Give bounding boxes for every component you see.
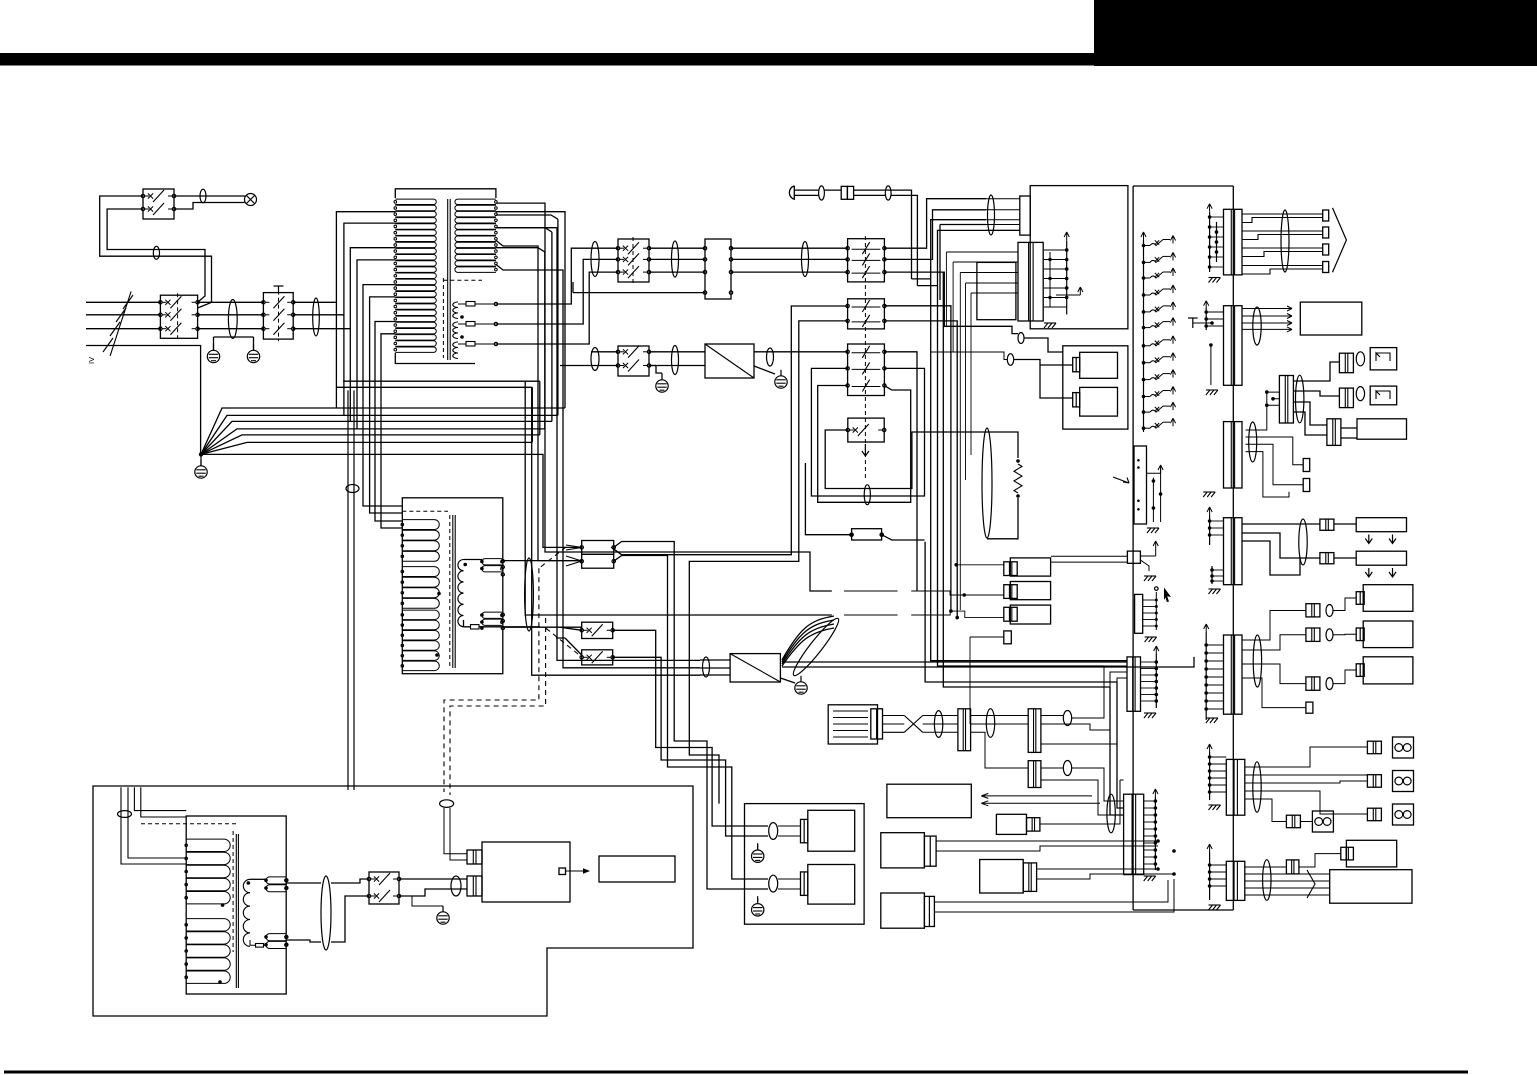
- riser 1: [496, 248, 618, 304]
- wire to switch 2: [107, 209, 205, 302]
- fan earth: [195, 466, 207, 478]
- S6 cable: [1253, 635, 1261, 687]
- T1 bottom bracket: [395, 353, 475, 364]
- wire seg: [731, 247, 848, 249]
- switch 3p slide: [848, 239, 885, 282]
- S5 ar 2: [1365, 568, 1372, 577]
- S8 chevron: [1307, 870, 1315, 898]
- S2 arrows: [1242, 308, 1286, 310]
- M2 gnd: [1144, 876, 1148, 881]
- app gnd 1: [752, 850, 764, 862]
- module 3: [1363, 657, 1413, 684]
- cable marker: [1007, 354, 1013, 366]
- bundle v1: [496, 203, 832, 591]
- T3 dashed: [141, 823, 238, 825]
- outlet box: [1300, 302, 1362, 335]
- S7 conn 1: [1367, 741, 1381, 754]
- T3 frame: [186, 816, 286, 994]
- M2 cable: [1107, 794, 1115, 833]
- bridge out: [754, 351, 848, 353]
- PS chassis gnd: [1044, 323, 1048, 328]
- S8 wires: [1245, 854, 1341, 895]
- PS pin bus: [1066, 240, 1068, 314]
- tall frame: [1133, 186, 1233, 910]
- S7 conn 2: [1367, 775, 1381, 788]
- S7 bus: [1209, 752, 1211, 800]
- T1 sec dots: [460, 315, 464, 319]
- CN108: [1226, 861, 1245, 900]
- S5 bus2: [1211, 566, 1213, 584]
- nest rect 2: [689, 321, 847, 804]
- T3 coils a: [186, 839, 230, 851]
- wire seg: [198, 301, 264, 303]
- fuse FX: [852, 529, 882, 540]
- cable marker: [767, 348, 774, 366]
- wire seg: [198, 328, 264, 330]
- S1 harness: [1242, 213, 1323, 215]
- comb2 gnd: [1145, 637, 1149, 642]
- earth 3: [656, 380, 668, 392]
- selector switch column: [1142, 244, 1146, 248]
- T2 primary coils b: [402, 567, 439, 577]
- cable marker: [802, 242, 809, 277]
- cable marker: [1018, 333, 1024, 344]
- riser F: [884, 306, 951, 611]
- T2 frame: [402, 498, 503, 674]
- modA wires: [936, 841, 1158, 851]
- switch 3p slide2: [848, 344, 885, 396]
- footer rule: [4, 1071, 1468, 1074]
- cable marker: [988, 195, 995, 235]
- T3 core: [232, 831, 234, 952]
- M1 pins: [1141, 661, 1157, 663]
- spk 4: [1312, 811, 1333, 832]
- sw col bus: [1143, 240, 1145, 432]
- disp arrows: [981, 793, 1100, 805]
- switch 2p: [618, 346, 649, 376]
- S5 ar 1: [1365, 535, 1372, 544]
- S2 gnd stem: [1210, 345, 1212, 385]
- bundle v5: [532, 387, 700, 675]
- S6 ell 3: [1326, 678, 1333, 690]
- S2 bus: [1205, 308, 1207, 330]
- dashed ctrl 1: [444, 547, 566, 792]
- S5 conn 1: [1320, 519, 1334, 530]
- wire seg: [293, 328, 350, 330]
- res wires: [982, 432, 1018, 539]
- fan out wires: [782, 657, 1194, 667]
- cable marker: [672, 346, 679, 375]
- BL switch: [369, 872, 399, 904]
- sm wires: [1040, 780, 1124, 824]
- small mod: [996, 814, 1026, 834]
- terminal block: [705, 239, 731, 299]
- mod A: [881, 833, 925, 868]
- BL wires mid: [286, 879, 369, 942]
- tb wire: [573, 282, 705, 293]
- dash v: [864, 236, 866, 480]
- BL cable 3: [451, 876, 461, 896]
- vbus 3: [925, 272, 1124, 815]
- S8 bus: [1209, 852, 1211, 900]
- br2 gnd: [795, 682, 807, 694]
- app ell 2: [769, 875, 778, 892]
- AC line 3: [86, 328, 160, 330]
- BL cable 4: [440, 800, 454, 808]
- wire to switch 1: [100, 196, 212, 308]
- module box 2: [1010, 582, 1050, 600]
- wrap loop 1: [336, 212, 565, 408]
- PS pin wires: [1049, 252, 1051, 307]
- T2 out loops 2: [482, 612, 502, 618]
- connector CN-T2: [582, 541, 614, 555]
- PS block: [1030, 186, 1128, 329]
- app gnd wires: [757, 843, 759, 902]
- riser 3: [496, 272, 618, 344]
- main switch: [160, 295, 197, 338]
- S5 cable: [1299, 519, 1307, 565]
- sw wires: [556, 627, 582, 655]
- app gnd 2: [752, 904, 764, 916]
- S5 bus: [1209, 515, 1211, 545]
- comb1 wires: [1147, 473, 1161, 522]
- S3 dots: [1265, 390, 1269, 394]
- fuse F1: [466, 302, 475, 307]
- edge box wires: [1051, 549, 1156, 571]
- f wires2: [971, 716, 1029, 769]
- edge box: [1127, 551, 1140, 563]
- relay box: [848, 418, 884, 442]
- switch 2p slide: [848, 299, 885, 329]
- relay loop: [825, 430, 982, 489]
- plug conn: [841, 186, 847, 199]
- cable marker: [672, 241, 679, 277]
- T2 core: [449, 515, 451, 668]
- f wires3: [1041, 666, 1127, 744]
- T1 primary left coils: [395, 199, 436, 204]
- riser ext: [946, 252, 960, 610]
- br2 cable: [703, 657, 710, 677]
- S1 bus: [1209, 212, 1211, 272]
- fan rect 1: [1356, 518, 1406, 532]
- S6 ell 1: [1326, 605, 1333, 617]
- jack 1: [1370, 348, 1397, 370]
- module box 3: [1010, 605, 1050, 624]
- svg-text:IV: IV: [87, 357, 96, 364]
- S6 pins: [1204, 643, 1208, 647]
- comb connector 1: [1134, 446, 1147, 524]
- conn arrow: [566, 545, 582, 566]
- f cable 1: [934, 711, 942, 738]
- BL wires in: [121, 787, 186, 864]
- fuse F3: [466, 342, 475, 347]
- wire seg: [293, 314, 344, 316]
- T1 right coils: [455, 199, 496, 204]
- mod B: [980, 860, 1024, 894]
- S6 conn 2: [1306, 628, 1320, 641]
- f wires4: [1041, 768, 1124, 815]
- T2 sec dots: [463, 563, 467, 567]
- S3 conn 3: [1327, 419, 1341, 446]
- relay 1: [1080, 352, 1118, 378]
- S6 conn 3: [1306, 677, 1320, 690]
- cursor arrow: [1164, 588, 1171, 603]
- slash 4: [103, 338, 113, 352]
- T2 conn out 1: [614, 542, 768, 890]
- cable marker: [313, 298, 320, 336]
- bridge BR1: [705, 344, 754, 378]
- br2 in: [700, 659, 730, 661]
- cable marker: [228, 300, 237, 339]
- S6 term: [1306, 702, 1313, 713]
- S3 cable: [1296, 375, 1304, 423]
- sw out 1: [613, 630, 768, 826]
- S3 jack conn 1: [1339, 353, 1353, 373]
- appliance frame: [745, 804, 865, 925]
- f wires1: [923, 716, 958, 733]
- T3 loop 1: [266, 877, 286, 884]
- comb connector 2: [1135, 594, 1143, 633]
- PS arrow2: [1078, 287, 1083, 295]
- relay frame: [1063, 346, 1128, 429]
- S6 bus: [1205, 632, 1207, 720]
- fuse F2: [466, 322, 475, 327]
- T2 primary coils: [402, 520, 439, 530]
- S5 wires: [1242, 524, 1356, 575]
- T3 coils b: [186, 919, 230, 931]
- T2 out loops 1: [482, 559, 502, 565]
- jack 2: [1370, 386, 1397, 405]
- bundle v4: [496, 265, 700, 668]
- S3 jack conn 2: [1339, 388, 1353, 408]
- S7 wires: [1245, 747, 1367, 822]
- module term: [1004, 631, 1012, 644]
- S3 wires2: [1246, 392, 1304, 497]
- display box: [887, 784, 971, 818]
- cable marker: [864, 485, 870, 505]
- br2 fan: [782, 628, 834, 666]
- CN102: [1224, 306, 1243, 386]
- S8 conn: [1286, 860, 1299, 874]
- nest rect 3: [811, 368, 924, 496]
- T2 secondary: [458, 560, 464, 571]
- T2 dashed top: [402, 510, 448, 512]
- riser H: [884, 352, 917, 591]
- spk 3: [1393, 804, 1414, 825]
- T2 primary coils c: [402, 610, 439, 620]
- switch SW-B: [582, 650, 613, 665]
- fan wires: [201, 408, 565, 454]
- filter conn: [871, 709, 883, 739]
- resistor R: [1014, 464, 1022, 493]
- BL gnd: [437, 912, 449, 924]
- cable marker: [200, 189, 206, 203]
- dashed ctrl 2: [450, 618, 578, 795]
- wire seg: [649, 351, 705, 353]
- BL amp wires: [399, 879, 467, 896]
- vbus 4: [949, 609, 953, 613]
- plug wire 1: [824, 190, 911, 279]
- S2 cable: [1253, 307, 1261, 345]
- CN107: [1226, 759, 1245, 815]
- M2 wires: [1144, 800, 1156, 802]
- bridge BR2: [730, 654, 780, 682]
- f ell 3: [1063, 711, 1071, 726]
- earth 2: [247, 350, 259, 362]
- BL cable 2: [321, 876, 331, 950]
- f ell 4: [1063, 761, 1071, 776]
- bundle slash: [110, 291, 131, 356]
- S1 chevron: [1333, 208, 1347, 272]
- module wires: [844, 565, 1004, 724]
- AC line 2: [86, 314, 160, 316]
- CN106: [1224, 635, 1243, 714]
- wrap loop 4: [357, 248, 545, 429]
- bundle v2: [496, 240, 582, 560]
- app mod 1: [808, 810, 855, 851]
- plug cable 2: [885, 186, 891, 200]
- cable marker: [346, 485, 359, 493]
- slash 1: [123, 295, 133, 309]
- relay 2: [1080, 387, 1118, 416]
- S2 gnd: [1206, 390, 1210, 395]
- T1 core top dashed: [443, 279, 482, 281]
- cable marker: [591, 242, 599, 277]
- app ell 1: [769, 823, 778, 840]
- riser B: [884, 210, 986, 260]
- S3 sq2: [1303, 479, 1310, 492]
- S7 gnd: [1209, 805, 1213, 810]
- plug cable: [819, 186, 825, 200]
- S3 gnd: [1203, 492, 1207, 497]
- BL outline: [93, 786, 693, 1016]
- S3 sq1: [1303, 459, 1310, 472]
- T1 top bracket: [395, 189, 496, 198]
- T2 fuse: [471, 625, 480, 629]
- header black block: [1094, 0, 1537, 66]
- S3 cable2: [1249, 422, 1257, 462]
- T2 wire A: [503, 560, 582, 562]
- M1 bus: [1155, 654, 1157, 708]
- T2 cable: [525, 558, 534, 631]
- S3 jack ell 2: [1356, 387, 1364, 401]
- BL vert wires: [444, 808, 467, 860]
- riser E: [884, 272, 1018, 334]
- wrap loop 6: [336, 297, 532, 513]
- mid rect: [977, 262, 1016, 319]
- mod C: [881, 893, 925, 928]
- filter box: [828, 705, 877, 744]
- module box 1: [1010, 558, 1050, 576]
- relay wire 2: [931, 352, 1008, 360]
- T3 sec dots: [247, 881, 251, 885]
- T2 wire B: [503, 626, 582, 628]
- long v pair: [347, 390, 349, 790]
- T1 core: [442, 278, 444, 358]
- sw out 2: [613, 657, 768, 836]
- header black band: [0, 53, 1537, 66]
- filter conn3: [1028, 709, 1041, 753]
- wrap loop 2: [344, 215, 558, 415]
- S7 cable: [1253, 762, 1261, 812]
- CN-M2: [1124, 794, 1144, 874]
- BL amp conn 1: [467, 850, 482, 864]
- big cable: [982, 428, 992, 538]
- wire seg: [591, 351, 618, 353]
- fuse wires: [805, 463, 924, 540]
- vbus 1: [931, 286, 1127, 660]
- AC line 1: [86, 301, 160, 303]
- S7 conn 3: [1367, 808, 1381, 821]
- PS entry extra: [946, 252, 1018, 480]
- T2 out 2: [464, 626, 541, 628]
- connector CN-PS: [1018, 242, 1043, 321]
- app wires: [778, 826, 801, 889]
- riser 2: [496, 259, 618, 324]
- PS tab: [1020, 196, 1030, 235]
- CN105: [1224, 518, 1243, 585]
- riser A: [884, 199, 986, 249]
- M1 gnd: [1144, 713, 1148, 718]
- BL amp: [482, 842, 570, 902]
- S6 wires: [1242, 598, 1356, 708]
- plug: [789, 186, 794, 199]
- wire seg: [293, 301, 336, 303]
- S8 tab: [1341, 847, 1354, 860]
- wire lamp top: [174, 195, 245, 197]
- S1 cable: [1281, 210, 1289, 272]
- module 2: [1363, 621, 1413, 648]
- earth 1: [207, 350, 219, 362]
- BL cable: [118, 811, 132, 818]
- S3 wires: [1293, 362, 1357, 438]
- cable marker: [591, 348, 599, 371]
- S6 conn 1: [1306, 604, 1320, 617]
- T symbol: [274, 285, 284, 287]
- S6 ell 2: [1326, 629, 1333, 641]
- BL out sq: [559, 868, 566, 875]
- T1 secondary coils: [453, 302, 458, 308]
- modB wires: [1037, 869, 1174, 879]
- X cross: [883, 716, 923, 733]
- S5 gnd: [1209, 589, 1213, 594]
- fan point: [199, 452, 203, 456]
- BL amp conn 2: [467, 876, 482, 896]
- pointer arrow: [1113, 477, 1129, 483]
- wrap tap stub: [375, 322, 402, 529]
- fan wire long: [201, 454, 582, 547]
- switch 3p: [618, 239, 649, 282]
- fan cable big: [789, 615, 843, 679]
- edge box gnd: [1144, 576, 1148, 581]
- riser D: [917, 230, 1019, 292]
- fan rect 2: [1356, 551, 1406, 565]
- wire seg: [198, 314, 264, 316]
- filter conn4: [1028, 761, 1041, 788]
- riser C: [912, 220, 987, 300]
- PS entry wires: [986, 199, 1020, 231]
- plug wire 2: [854, 195, 918, 285]
- riser G: [884, 321, 957, 618]
- bundle v3: [496, 228, 700, 661]
- T3 loop 2: [266, 934, 286, 941]
- modC wires: [934, 879, 1174, 912]
- spk 1: [1393, 737, 1414, 758]
- fan stem: [200, 454, 202, 466]
- nest rect 1: [611, 306, 847, 555]
- f cable 2: [986, 709, 994, 738]
- S8 gnd: [1209, 905, 1213, 910]
